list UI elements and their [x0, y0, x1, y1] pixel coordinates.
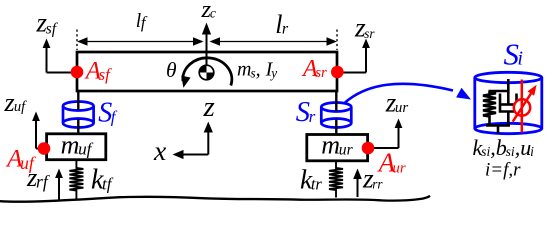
svg-text:z: z: [203, 91, 215, 123]
svg-text:ksi,bsi,ui: ksi,bsi,ui: [473, 135, 535, 160]
svg-text:ms, Iy: ms, Iy: [237, 59, 277, 81]
svg-text:i=f,r: i=f,r: [485, 160, 521, 181]
svg-text:θ: θ: [166, 58, 177, 82]
svg-text:x: x: [153, 135, 166, 166]
